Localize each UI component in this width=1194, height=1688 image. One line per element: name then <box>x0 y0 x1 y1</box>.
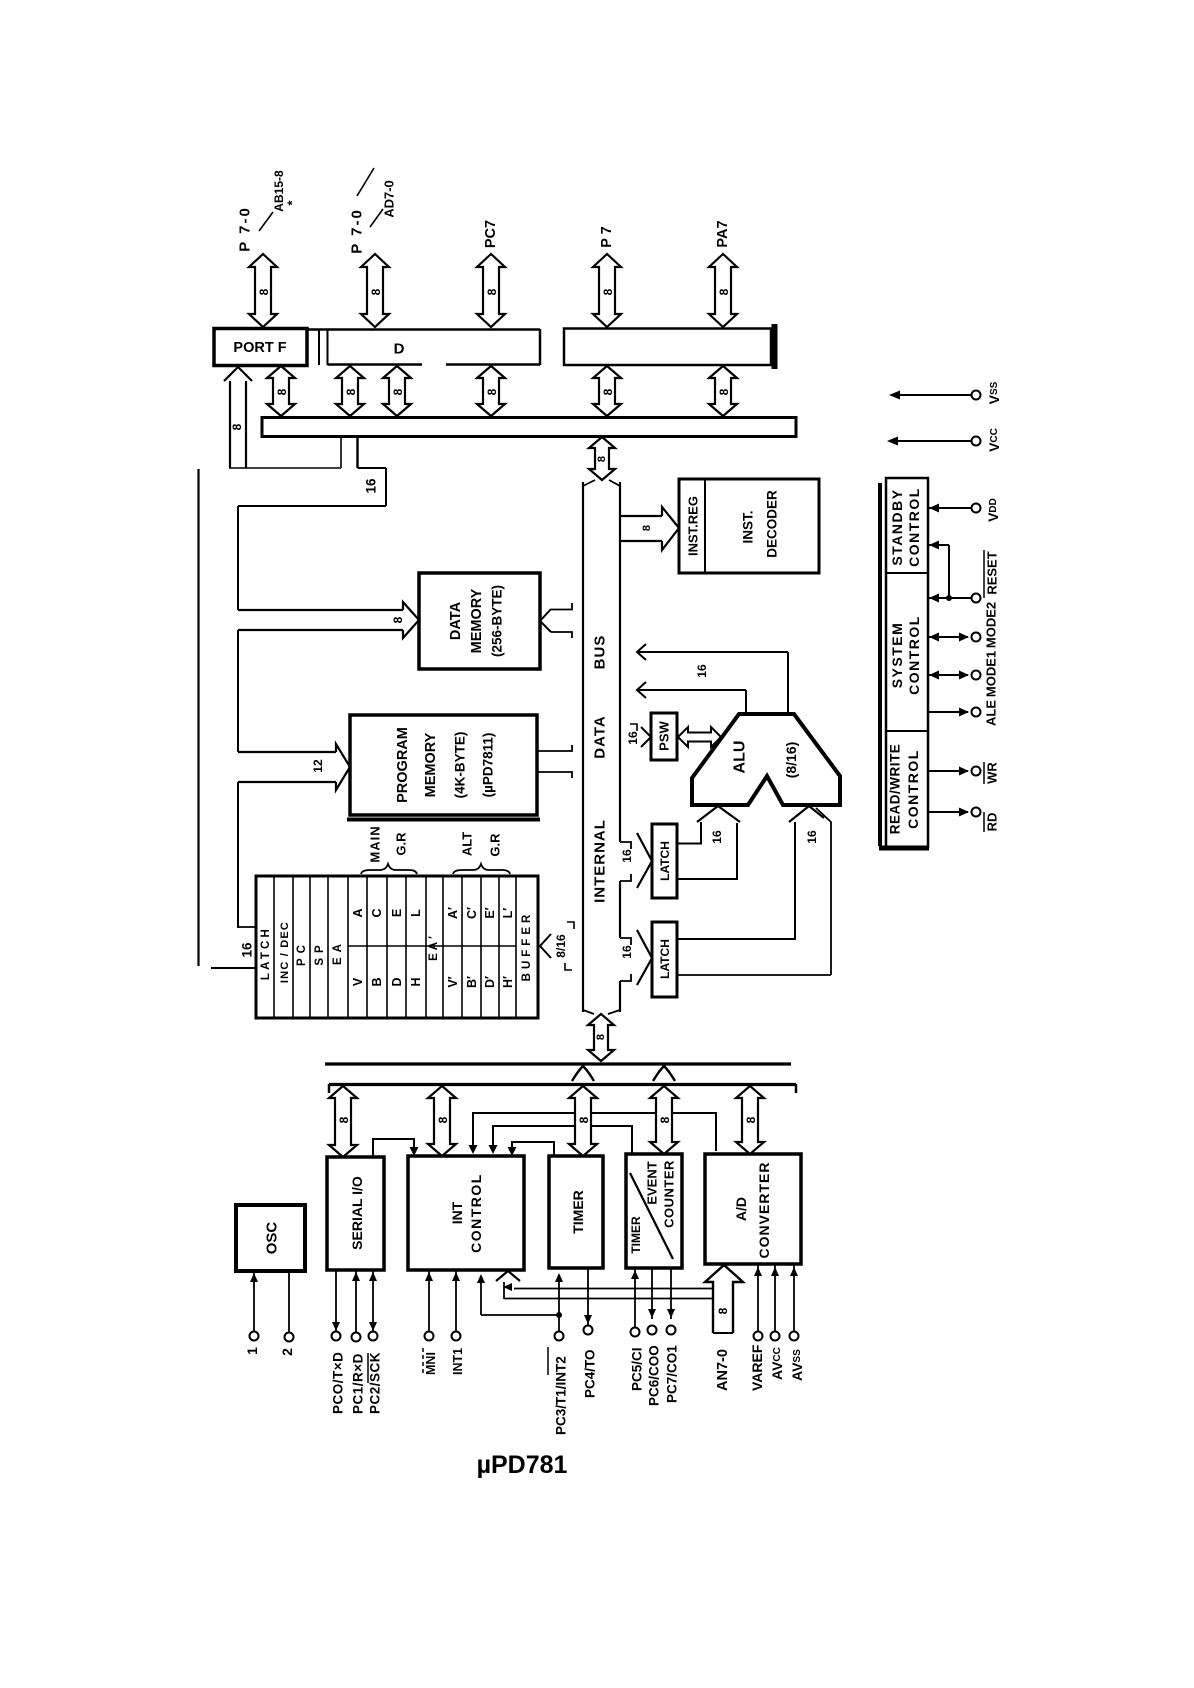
register file divider x=443 <box>442 877 444 1017</box>
svg-text:CONTROL: CONTROL <box>906 487 922 567</box>
svg-text:INST.: INST. <box>741 510 756 543</box>
pin WR <box>929 770 968 772</box>
svg-text:8: 8 <box>641 525 653 531</box>
svg-text:EA: EA <box>332 939 344 965</box>
svg-text:SERIAL I/O: SERIAL I/O <box>349 1176 365 1250</box>
wire latch2 second path <box>678 808 831 975</box>
svg-text:TIMER: TIMER <box>629 1216 643 1254</box>
svg-text:C: C <box>370 908 384 917</box>
svg-text:VSS: VSS <box>986 381 1002 404</box>
pin XTAL1 <box>253 1271 255 1331</box>
svg-text:8: 8 <box>230 423 244 430</box>
pin PC2/SCK <box>372 1270 374 1331</box>
svg-text:L′: L′ <box>501 908 515 919</box>
block standby/system/read-write control <box>878 483 882 846</box>
svg-text:PC: PC <box>296 940 308 966</box>
pin RESET <box>929 597 971 599</box>
register file divider x=499 <box>498 877 500 1017</box>
svg-text:B: B <box>370 977 384 986</box>
pin PCO/TxD <box>335 1270 337 1331</box>
svg-text:ALT: ALT <box>460 832 475 856</box>
svg-text:2: 2 <box>279 1348 295 1356</box>
svg-text:PC2/SCK: PC2/SCK <box>368 1352 383 1414</box>
svg-text:PROGRAM: PROGRAM <box>395 727 411 803</box>
8-bit double arrow peripheral bus to block x=343 <box>329 1086 357 1157</box>
svg-text:INST.REG: INST.REG <box>686 496 701 556</box>
external 8-bit double arrow port B bus <box>593 254 621 327</box>
svg-text:E: E <box>390 909 404 917</box>
pin ALE <box>929 711 968 713</box>
register file divider x=328 <box>327 877 329 1017</box>
svg-text:INT: INT <box>449 1201 465 1224</box>
pin Vcc <box>891 440 971 442</box>
pin PC7/CO1 <box>670 1268 672 1319</box>
8-bit double arrow port to main bus x=281 <box>267 366 295 416</box>
svg-text:EA′: EA′ <box>428 933 440 961</box>
svg-text:8: 8 <box>658 1116 672 1123</box>
svg-text:STANDBY: STANDBY <box>889 488 905 565</box>
svg-text:AD7-0: AD7-0 <box>382 180 397 218</box>
svg-text:H′: H′ <box>501 976 515 988</box>
svg-text:A: A <box>351 908 365 917</box>
pin MODE2 <box>929 636 968 638</box>
ALU 16-bit outputs to bus <box>787 652 789 713</box>
svg-text:DATA: DATA <box>448 601 464 640</box>
register file divider x=426 <box>425 877 427 1017</box>
register file divider x=516 <box>515 877 517 1017</box>
svg-text:A/D: A/D <box>733 1197 749 1221</box>
svg-text:PC5/CI: PC5/CI <box>630 1347 645 1391</box>
svg-text:INT1: INT1 <box>451 1348 465 1375</box>
pin MODE1 <box>929 674 968 676</box>
8-bit feedback bus into INT CONTROL <box>496 1271 520 1281</box>
block INT CONTROL <box>408 1156 524 1270</box>
svg-text:12: 12 <box>311 759 325 773</box>
register file mid divider <box>348 945 516 947</box>
svg-text:V′: V′ <box>446 976 460 987</box>
svg-text:AVCC: AVCC <box>769 1347 785 1380</box>
svg-text:8: 8 <box>275 388 289 395</box>
svg-text:16: 16 <box>240 942 255 958</box>
external 8-bit double arrow port C bus <box>477 254 505 327</box>
8-bit arrow into INST.REG <box>620 515 662 517</box>
svg-text:8: 8 <box>436 1116 450 1123</box>
svg-text:8: 8 <box>577 1116 591 1123</box>
svg-text:CONTROL: CONTROL <box>905 749 921 829</box>
8-bit double arrow peripheral bus to block x=664 <box>650 1086 678 1154</box>
svg-text:*: * <box>285 200 300 206</box>
wire timer to int control <box>512 1142 554 1156</box>
data memory bus taps <box>540 609 551 632</box>
svg-text:P 7-0: P 7-0 <box>349 208 366 254</box>
svg-text:DECODER: DECODER <box>765 490 780 558</box>
svg-text:P 7: P 7 <box>599 226 615 248</box>
block OSC <box>236 1205 305 1271</box>
pin VAREF <box>757 1264 759 1331</box>
svg-text:LATCH: LATCH <box>260 926 272 980</box>
pin NMI <box>428 1270 430 1331</box>
register file divider x=293 <box>292 877 294 1017</box>
svg-text:16: 16 <box>710 830 724 844</box>
pin AVcc <box>774 1264 776 1331</box>
svg-text:ALE: ALE <box>984 700 999 726</box>
svg-text:AN7-0: AN7-0 <box>715 1349 731 1391</box>
pin RD <box>929 811 968 813</box>
svg-text:MEMORY: MEMORY <box>469 588 485 653</box>
svg-text:16: 16 <box>620 945 634 959</box>
svg-text:INC / DEC: INC / DEC <box>279 921 291 983</box>
svg-text:D′: D′ <box>483 976 497 988</box>
svg-text:PC3/T1/INT2: PC3/T1/INT2 <box>554 1356 569 1435</box>
brace ALT G.R <box>453 864 510 874</box>
svg-text:8: 8 <box>337 1116 351 1123</box>
block ALU <box>692 714 840 805</box>
block PROGRAM MEMORY <box>350 715 537 815</box>
svg-text:PC7/CO1: PC7/CO1 <box>665 1345 680 1403</box>
svg-text:D: D <box>394 341 405 358</box>
svg-text:PC1/R×D: PC1/R×D <box>351 1353 366 1414</box>
block DATA MEMORY <box>419 573 540 669</box>
svg-text:BUFFER: BUFFER <box>521 911 533 982</box>
svg-text:SP: SP <box>314 940 326 965</box>
external 8-bit double arrow port A bus <box>709 254 737 327</box>
svg-text:COUNTER: COUNTER <box>662 1160 677 1228</box>
8-bit double arrow peripheral bus to block x=750 <box>736 1086 764 1154</box>
program memory bus taps <box>538 745 572 751</box>
svg-text:OSC: OSC <box>264 1222 281 1255</box>
svg-text:G.R: G.R <box>488 833 503 857</box>
main bus (ports) <box>262 418 796 437</box>
svg-text:INTERNAL: INTERNAL <box>592 819 609 903</box>
svg-text:1: 1 <box>244 1347 260 1355</box>
svg-text:SYSTEM: SYSTEM <box>889 622 905 689</box>
pin PC1/RxD <box>355 1270 357 1332</box>
svg-text:(4K-BYTE): (4K-BYTE) <box>453 732 468 799</box>
svg-text:VCC: VCC <box>986 428 1002 452</box>
svg-text:VAREF: VAREF <box>749 1344 765 1391</box>
svg-text:V: V <box>351 977 365 986</box>
peripheral bus line 1 <box>325 1062 791 1065</box>
svg-text:ALU: ALU <box>732 741 749 774</box>
wire feedback from main bus to PORT F <box>229 467 341 469</box>
svg-text:VDD: VDD <box>985 498 1001 522</box>
svg-text:8: 8 <box>391 616 405 623</box>
8-bit double arrow main bus to internal bus <box>589 437 615 480</box>
ALU input 1 from latch <box>697 806 740 822</box>
internal data bus rails <box>582 482 584 1012</box>
svg-text:8: 8 <box>717 288 731 295</box>
svg-text:8: 8 <box>744 1116 758 1123</box>
register file divider x=310 <box>309 877 311 1017</box>
svg-text:EVENT: EVENT <box>645 1161 660 1204</box>
ALU input 2 from latch <box>789 806 824 822</box>
peripheral bus line 2 <box>329 1083 796 1086</box>
8-bit double arrow port to main bus x=350 <box>336 366 364 416</box>
svg-text:8: 8 <box>596 456 608 462</box>
pin PC6/COO <box>651 1268 653 1319</box>
svg-text:L: L <box>409 909 423 917</box>
external 8-bit double arrow port F bus <box>249 254 277 327</box>
svg-text:WR: WR <box>985 762 1000 784</box>
block LATCH 2 <box>637 930 652 985</box>
pin Vss <box>893 394 971 396</box>
svg-text:DATA: DATA <box>592 715 609 758</box>
register file divider x=367 <box>366 877 368 1017</box>
pin INT1 <box>455 1270 457 1331</box>
svg-text:A′: A′ <box>446 907 460 919</box>
svg-text:B′: B′ <box>465 976 479 988</box>
svg-text:LATCH: LATCH <box>658 939 672 979</box>
svg-text:CONTROL: CONTROL <box>468 1173 484 1253</box>
pin PC5/CI <box>634 1268 636 1327</box>
svg-text:8: 8 <box>595 1034 607 1040</box>
register file divider x=481 <box>480 877 482 1017</box>
svg-text:8: 8 <box>485 288 499 295</box>
pin PC3/T1/INT2 <box>558 1315 560 1331</box>
wire timer/event counter to int control <box>493 1126 632 1154</box>
8-bit up arrow into PORT F <box>224 367 252 381</box>
svg-text:LATCH: LATCH <box>658 841 672 881</box>
svg-text:CONTROL: CONTROL <box>906 615 922 695</box>
svg-text:PC7: PC7 <box>483 220 499 248</box>
port block right (ports B/A) <box>564 329 771 366</box>
port block D <box>307 328 540 331</box>
svg-text:PC6/COO: PC6/COO <box>647 1345 662 1406</box>
svg-text:16: 16 <box>620 849 634 863</box>
8-bit arrow into DATA MEMORY <box>238 609 403 611</box>
svg-text:D: D <box>390 977 404 986</box>
register file divider x=462 <box>461 877 463 1017</box>
8-bit double arrow peripheral bus to block x=442 <box>428 1086 456 1156</box>
register file divider x=274 <box>273 877 275 1017</box>
AN7-0 8-bit arrow into A/D CONVERTER <box>705 1265 743 1333</box>
arrowheads through bus lines <box>572 1066 594 1081</box>
svg-text:PORT F: PORT F <box>233 340 286 356</box>
svg-text:G.R: G.R <box>394 832 409 856</box>
svg-text:RD: RD <box>985 813 1000 832</box>
svg-text:PA7: PA7 <box>715 220 731 247</box>
wire 16-bit address path <box>356 437 358 468</box>
register file divider x=348 <box>347 877 349 1017</box>
svg-text:C′: C′ <box>465 907 479 919</box>
svg-text:PSW: PSW <box>657 720 672 750</box>
svg-text:AVSS: AVSS <box>789 1349 805 1381</box>
8-bit double arrow port to main bus x=397 <box>383 366 411 416</box>
svg-text:MODE2: MODE2 <box>984 602 999 648</box>
8-bit double arrow port to main bus x=491 <box>477 366 505 416</box>
svg-text:16: 16 <box>626 731 640 745</box>
block SERIAL I/O <box>327 1157 384 1270</box>
register file divider x=387 <box>386 877 388 1017</box>
pin AVss <box>793 1264 795 1331</box>
wire A/D to int control <box>473 1113 716 1151</box>
register file divider x=406 <box>405 877 407 1017</box>
wire left vertical to register file <box>197 469 199 966</box>
pin VDD <box>929 507 971 509</box>
svg-text:16: 16 <box>364 478 379 494</box>
svg-text:8: 8 <box>391 388 405 395</box>
double arrow PSW-ALU <box>678 727 721 747</box>
block INST.REG / INST.DECODER <box>679 479 819 573</box>
8-bit double arrow peripheral bus to block x=583 <box>569 1086 597 1156</box>
svg-text:TIMER: TIMER <box>570 1190 586 1234</box>
block PSW <box>651 713 677 760</box>
svg-text:RESET: RESET <box>985 551 1000 594</box>
svg-text:P 7-0: P 7-0 <box>237 206 254 252</box>
svg-text:PCO/T×D: PCO/T×D <box>331 1352 346 1414</box>
svg-text:16: 16 <box>695 664 709 678</box>
svg-text:MNI: MNI <box>424 1352 438 1375</box>
pin PC4/TO <box>587 1268 589 1325</box>
svg-text:(µPD7811): (µPD7811) <box>481 733 496 798</box>
svg-text:8: 8 <box>257 288 271 295</box>
block TIMER/EVENT COUNTER <box>626 1154 682 1268</box>
wire serial to int control <box>373 1139 414 1157</box>
svg-text:16: 16 <box>805 830 819 844</box>
8-bit double arrow internal bus to peripheral bus <box>588 1014 614 1061</box>
svg-text:8/16: 8/16 <box>554 934 568 958</box>
svg-text:µPD781: µPD781 <box>477 1451 568 1479</box>
svg-text:8: 8 <box>601 288 615 295</box>
svg-text:H: H <box>409 977 423 986</box>
svg-text:(8/16): (8/16) <box>783 742 799 779</box>
12-bit arrow into PROGRAM MEMORY <box>238 751 336 753</box>
svg-text:CONVERTER: CONVERTER <box>756 1162 772 1259</box>
external 8-bit double arrow port D bus <box>361 254 389 327</box>
svg-text:8: 8 <box>717 388 731 395</box>
svg-text:MODE1: MODE1 <box>984 651 999 697</box>
port block PORT F <box>214 329 307 366</box>
svg-text:(256-BYTE): (256-BYTE) <box>490 585 505 657</box>
block register file <box>256 876 538 1018</box>
8-bit double arrow port to main bus x=607 <box>593 366 621 416</box>
brace MAIN G.R <box>361 864 417 874</box>
block TIMER <box>549 1156 603 1268</box>
svg-text:PC4/TO: PC4/TO <box>583 1349 598 1398</box>
8-bit double arrow port to main bus x=723 <box>709 366 737 416</box>
svg-text:8: 8 <box>716 1307 730 1314</box>
svg-text:MEMORY: MEMORY <box>423 732 439 797</box>
svg-text:8: 8 <box>344 388 358 395</box>
svg-text:E′: E′ <box>483 907 497 918</box>
svg-text:MAIN: MAIN <box>368 825 383 862</box>
block LATCH 1 <box>637 833 652 888</box>
pin XTAL2 <box>288 1271 290 1332</box>
block A/D CONVERTER <box>705 1154 801 1264</box>
svg-text:READ/WRITE: READ/WRITE <box>888 744 903 835</box>
svg-text:8: 8 <box>485 388 499 395</box>
svg-text:8: 8 <box>601 388 615 395</box>
8/16 arrow into BUFFER <box>540 934 551 958</box>
svg-text:BUS: BUS <box>592 635 609 670</box>
svg-text:8: 8 <box>369 288 383 295</box>
